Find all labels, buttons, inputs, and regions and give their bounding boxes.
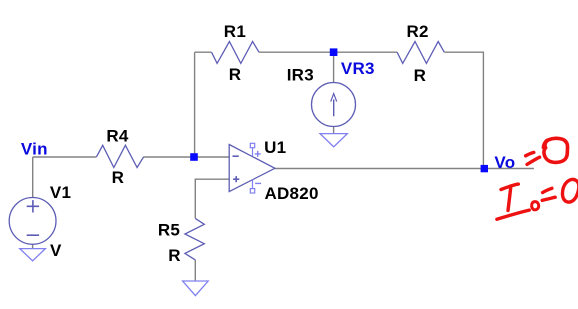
node: top junction at IR3 xyxy=(330,48,338,56)
svg-text:AD820: AD820 xyxy=(265,184,319,203)
svg-text:Vin: Vin xyxy=(21,140,48,159)
svg-text:IR3: IR3 xyxy=(287,65,314,84)
current source IR3 xyxy=(312,83,356,127)
wire: junction down to IR3 xyxy=(333,52,335,82)
svg-text:Vo: Vo xyxy=(494,153,515,172)
resistor R5 xyxy=(185,218,204,259)
wire: op-amp plus input to R5 xyxy=(195,179,229,218)
svg-text:R2: R2 xyxy=(407,22,429,41)
red annotation: Io=0 - letter I xyxy=(497,184,529,219)
red annotation: Io=0 - digit 0 xyxy=(562,179,578,202)
node: inverting input junction xyxy=(190,153,198,161)
svg-text:R4: R4 xyxy=(106,127,129,146)
svg-text:R5: R5 xyxy=(158,221,180,240)
svg-text:V1: V1 xyxy=(50,183,71,202)
red annotation: Io=0 - letter o xyxy=(532,202,539,210)
svg-text:R: R xyxy=(112,168,125,187)
resistor R1 xyxy=(212,42,260,64)
wire: R1 to junction xyxy=(259,51,334,53)
node Vo xyxy=(481,165,488,172)
svg-text:U1: U1 xyxy=(264,138,286,157)
wire: junction to R2 xyxy=(334,51,398,53)
ground (R5) xyxy=(183,281,209,296)
ground (IR3) xyxy=(320,134,347,147)
op-amp U1 xyxy=(229,145,275,192)
op-amp U1 positive supply pin xyxy=(250,143,260,157)
wire: op-amp output to Vo and tail xyxy=(275,168,534,170)
wire: V1 bottom stub to ground xyxy=(32,244,34,248)
wire: Vin corner down to V1 xyxy=(32,157,34,198)
resistor R4 xyxy=(97,145,144,167)
red annotation: O after equals xyxy=(543,138,567,162)
wire: R2 to right corner down to Vo node xyxy=(444,52,483,165)
wire: top left corner to R1 xyxy=(195,51,212,53)
svg-text:V: V xyxy=(50,241,62,260)
op-amp U1 negative supply pin xyxy=(250,180,261,193)
wire: R5 bottom to ground xyxy=(194,260,196,281)
svg-text:R: R xyxy=(414,66,427,85)
voltage source V1 xyxy=(9,198,56,245)
ground (V1) xyxy=(20,249,46,261)
svg-text:R: R xyxy=(168,246,181,265)
wire: Vin horizontal to R4 xyxy=(33,156,97,158)
resistor R2 xyxy=(397,42,444,64)
red annotation: Io=0 - equals xyxy=(542,188,555,200)
wire: node up left vertical xyxy=(194,52,196,157)
svg-text:VR3: VR3 xyxy=(341,59,375,78)
svg-text:R1: R1 xyxy=(224,22,246,41)
wire: R4 to op-amp inverting input xyxy=(144,156,230,158)
red annotation: equals after Vo xyxy=(526,152,540,164)
svg-text:R: R xyxy=(229,65,242,84)
wire: IR3 bottom stub to ground xyxy=(333,127,335,134)
